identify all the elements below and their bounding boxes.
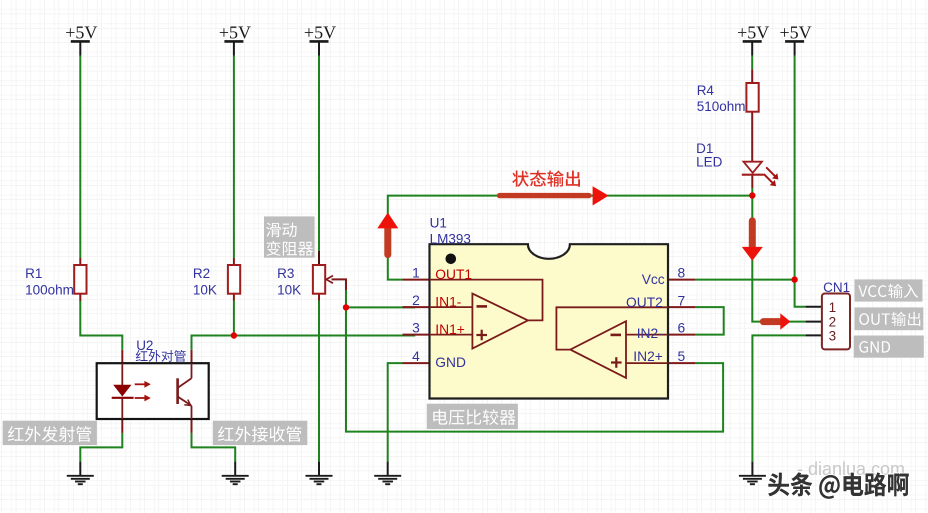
svg-text:100ohm: 100ohm <box>25 282 74 297</box>
svg-text:+5V: +5V <box>219 23 251 43</box>
svg-text:Vcc: Vcc <box>642 272 665 287</box>
svg-text:R2: R2 <box>193 266 210 281</box>
svg-text:IN1+: IN1+ <box>435 322 465 337</box>
svg-text:LED: LED <box>696 154 723 169</box>
svg-text:+5V: +5V <box>737 23 769 43</box>
svg-text:IN1-: IN1- <box>435 295 461 310</box>
svg-text:4: 4 <box>412 349 420 364</box>
svg-text:U1: U1 <box>430 216 447 231</box>
svg-text:IN2-: IN2- <box>637 326 663 341</box>
svg-text:5: 5 <box>678 349 686 364</box>
svg-text:GND: GND <box>435 355 466 370</box>
svg-text:2: 2 <box>412 293 420 308</box>
svg-text:LM393: LM393 <box>430 231 471 246</box>
svg-text:8: 8 <box>678 266 686 281</box>
svg-text:7: 7 <box>678 293 686 308</box>
svg-text:IN2+: IN2+ <box>633 349 663 364</box>
svg-text:1: 1 <box>829 300 837 315</box>
svg-text:R1: R1 <box>25 266 42 281</box>
svg-text:3: 3 <box>412 321 420 336</box>
svg-text:+5V: +5V <box>780 23 812 43</box>
svg-text:CN1: CN1 <box>823 280 850 295</box>
svg-text:R4: R4 <box>697 83 715 98</box>
svg-text:+5V: +5V <box>65 23 97 43</box>
svg-text:6: 6 <box>678 321 686 336</box>
svg-text:10K: 10K <box>193 282 217 297</box>
svg-text:510ohm: 510ohm <box>697 99 746 114</box>
svg-text:OUT2: OUT2 <box>626 295 663 310</box>
svg-text:10K: 10K <box>277 282 301 297</box>
svg-text:3: 3 <box>829 328 837 343</box>
svg-text:1: 1 <box>412 266 420 281</box>
svg-text:+5V: +5V <box>304 23 336 43</box>
svg-text:OUT1: OUT1 <box>435 267 472 282</box>
svg-text:R3: R3 <box>277 266 294 281</box>
